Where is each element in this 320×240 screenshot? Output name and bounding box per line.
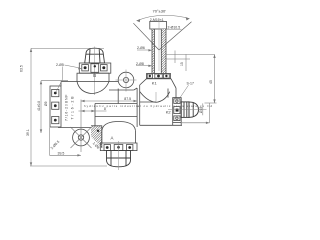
front view: bottom port centerline [118, 141, 120, 170]
svg-text:70°±30': 70°±30' [153, 9, 167, 14]
front view: dome shield [77, 82, 109, 94]
svg-text:K1: K1 [152, 80, 158, 85]
side view: 70 deg cone V [133, 22, 191, 50]
svg-text:2-Ø10.5: 2-Ø10.5 [168, 25, 181, 29]
side view: stem tube with hatch [152, 29, 166, 74]
side view: right port hex [181, 102, 189, 118]
front view: left ports block [50, 86, 61, 127]
front view: shoulder line left [61, 81, 77, 83]
front view: top cap nut B port [85, 48, 105, 63]
svg-text:S-17: S-17 [187, 81, 194, 85]
side view: right port cone cap [189, 102, 199, 118]
front view: top port centerline [94, 47, 96, 96]
front view: bottom bulge arc [102, 122, 136, 144]
svg-text:63.5: 63.5 [19, 65, 23, 72]
svg-text:8: 8 [104, 107, 106, 111]
side view: angle dim arc with arrows [137, 15, 190, 22]
dim 87.5 [81, 97, 137, 102]
label 2-phi8 lower with arrow to stem [136, 62, 152, 67]
side view: cone tip dim [199, 103, 203, 115]
svg-text:39.5: 39.5 [58, 151, 65, 155]
side view: stem right ext lines and small dims [166, 51, 215, 72]
front view: shoulder line right [109, 81, 118, 83]
right lower dim bracket [182, 103, 210, 124]
front view: top flange with bolts [79, 63, 111, 73]
leader 2-phi top left [56, 63, 82, 93]
front view: boss circle with hole [116, 70, 137, 92]
svg-text:39.1: 39.1 [26, 129, 30, 136]
side view: flange row [147, 74, 171, 79]
svg-text:Ø9: Ø9 [44, 101, 48, 106]
front view: hatched wedge section [91, 126, 102, 148]
side view: internal dome arcs [140, 92, 170, 103]
label 2-phi6 upper with arrow to stem [137, 46, 152, 51]
svg-text:K2: K2 [166, 109, 172, 114]
svg-text:41±0.8: 41±0.8 [37, 101, 41, 111]
front view: bottom hex cap [107, 151, 131, 167]
svg-text:2-Ø6: 2-Ø6 [137, 46, 145, 50]
dim 8 [78, 107, 106, 112]
svg-text:7/16-2B: 7/16-2B [70, 96, 74, 120]
left dim 63.5 vertical [19, 48, 107, 166]
left dim 41+-0.8 vertical [37, 81, 68, 133]
svg-text:2-Ø5: 2-Ø5 [56, 63, 64, 67]
side view: top cap rect [150, 21, 167, 29]
svg-text:45: 45 [209, 80, 213, 84]
front view: body left edge [60, 82, 62, 87]
svg-text:A: A [111, 135, 114, 140]
side view: body outline [140, 79, 182, 126]
text 2-phi10.5 with leader [166, 25, 182, 29]
svg-text:87.5: 87.5 [124, 97, 131, 101]
front view: crosshair circle bottom left [71, 100, 92, 153]
front view: upper body block [77, 73, 109, 81]
text S-17 with leader [180, 81, 194, 97]
side view: port centerline [168, 109, 207, 111]
svg-text:15: 15 [180, 62, 184, 66]
front view: body bottom edge [58, 127, 95, 129]
side view: right port flange [173, 98, 182, 123]
bottom dim 39.5 [50, 128, 82, 157]
front view: bottom flange [100, 143, 137, 151]
side view: stem centerline [158, 19, 160, 71]
right dim 45 [205, 54, 217, 103]
svg-text:2-M10×1: 2-M10×1 [150, 18, 164, 22]
rotated port spec text columns [64, 95, 74, 122]
svg-text:2-Ø8: 2-Ø8 [136, 62, 144, 66]
front view: right section lines [95, 88, 137, 128]
svg-text:7/16-20UNF: 7/16-20UNF [64, 95, 68, 122]
